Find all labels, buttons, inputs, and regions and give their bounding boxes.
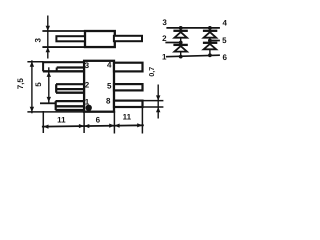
- junction dot node 1 bottom: [179, 55, 183, 59]
- top view: right pin 8: [114, 101, 143, 107]
- top view: left pin 2 inner line: [56, 88, 84, 90]
- top view: right pin 4: [114, 63, 143, 72]
- top view: left pin 1 inner line: [56, 105, 85, 107]
- dimension 7,5: bottom extension line: [27, 111, 84, 113]
- schematic: right chain vertical wire: [209, 28, 211, 55]
- svg-text:8: 8: [106, 97, 111, 106]
- junction dot node 2: [179, 41, 183, 45]
- dimension 5: dimension line: [48, 67, 50, 104]
- top view: body outline: [84, 61, 114, 112]
- diode VD1 cathode bar: [173, 30, 187, 32]
- junction dot node 4 top: [208, 26, 212, 30]
- dimension 3: upper arrow: [46, 26, 50, 31]
- bottom dimension: extension line body right: [113, 111, 115, 134]
- dimension 0,7: lower arrow: [156, 107, 160, 112]
- dimension 0,7: top extension line: [143, 100, 164, 102]
- dimension 0,7: bottom extension line: [143, 106, 164, 108]
- schematic: top line pin3 to pin4: [166, 27, 220, 29]
- top view: left pin 3 inner line: [57, 66, 84, 68]
- svg-text:6: 6: [96, 116, 101, 125]
- junction dot node 5: [208, 39, 212, 43]
- dimension 0,7: upper arrow: [156, 95, 160, 100]
- diode VD4 triangle: [204, 44, 217, 49]
- dimension 0,7: dimension line: [157, 85, 159, 119]
- side view: package silhouette bottom line: [42, 46, 114, 48]
- diode VD2 cathode bar: [173, 44, 187, 46]
- dimension 5: bottom arrow: [47, 97, 51, 102]
- svg-text:4: 4: [107, 60, 112, 69]
- top view: pin1 index dot: [86, 105, 92, 111]
- bottom dimension arrows: [43, 123, 142, 129]
- svg-text:11: 11: [123, 113, 132, 122]
- bottom dimension: extension line right pin: [141, 108, 143, 134]
- svg-text:3: 3: [34, 38, 43, 43]
- svg-text:7,5: 7,5: [16, 78, 25, 90]
- dimension 5: top arrow: [47, 72, 51, 77]
- side view: right lead: [114, 36, 142, 41]
- top view: right pin 5: [114, 84, 143, 90]
- svg-text:1: 1: [162, 53, 167, 62]
- side view: left lead: [56, 36, 85, 41]
- diode VD4 cathode bar: [203, 42, 217, 44]
- svg-text:3: 3: [162, 18, 167, 27]
- dimension 7,5: bottom arrow: [30, 107, 34, 112]
- svg-text:3: 3: [85, 61, 90, 70]
- svg-text:5: 5: [107, 82, 112, 91]
- diode VD2 triangle: [174, 46, 187, 52]
- bottom dimension: extension line body left: [83, 112, 85, 133]
- side view: body outline: [85, 31, 115, 47]
- diode VD1 triangle: [174, 32, 187, 38]
- svg-text:2: 2: [162, 34, 167, 43]
- schematic: bottom line pin1 to pin6: [166, 55, 220, 57]
- schematic: pin5 lead: [210, 40, 220, 42]
- dimension 7,5: top arrow: [30, 62, 34, 67]
- top view: left pin 3 (row1) outline: [43, 61, 84, 63]
- dimension 7,5: dimension line: [31, 60, 33, 113]
- top view: left pin 2 (row2) outline: [56, 83, 84, 85]
- bottom dimension line: [42, 125, 144, 126]
- dimension 3: lower arrow: [46, 47, 50, 52]
- dimension 3: dimension line: [47, 16, 49, 59]
- top view: left pin 1 (row3) outline: [56, 100, 85, 102]
- svg-text:6: 6: [223, 53, 228, 62]
- schematic: pin2 lead: [165, 42, 180, 44]
- diode VD3 cathode bar: [203, 30, 217, 32]
- side view: package silhouette top line: [42, 30, 114, 32]
- diode VD3 triangle: [204, 32, 217, 38]
- dimension 5: bottom extension line: [40, 102, 56, 104]
- dimension 7,5: top extension line: [27, 61, 43, 63]
- junction dot node 6 bottom: [208, 53, 212, 57]
- schematic: left chain vertical wire: [180, 28, 182, 57]
- svg-text:1: 1: [85, 98, 90, 107]
- bottom dimension: extension line left pins tip: [42, 111, 44, 133]
- svg-text:0,7: 0,7: [149, 67, 156, 77]
- svg-text:5: 5: [222, 36, 227, 45]
- svg-text:5: 5: [34, 82, 43, 87]
- junction dot node 3 top: [179, 26, 183, 30]
- svg-text:2: 2: [85, 81, 90, 90]
- svg-text:4: 4: [223, 19, 228, 28]
- svg-text:11: 11: [57, 116, 66, 125]
